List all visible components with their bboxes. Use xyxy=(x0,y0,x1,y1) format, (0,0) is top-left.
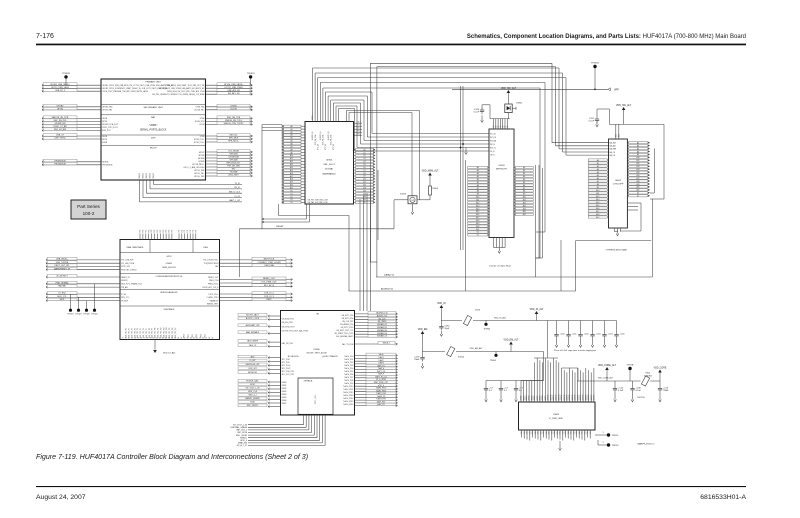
U0901 bottom stubs xyxy=(262,204,310,223)
svg-text:A8: A8 xyxy=(477,190,479,193)
svg-text:92: 92 xyxy=(190,338,192,340)
svg-text:SNC_SN_TCB: SNC_SN_TCB xyxy=(227,117,241,119)
svg-text:RGB5: RGB5 xyxy=(282,397,287,399)
svg-text:A15: A15 xyxy=(636,171,639,174)
svg-text:ADDR(23:0): ADDR(23:0) xyxy=(381,287,393,290)
svg-text:UT0B: UT0B xyxy=(200,118,205,120)
svg-text:TRC3: TRC3 xyxy=(196,334,198,338)
svg-text:SW_AT3_3N: SW_AT3_3N xyxy=(228,92,240,95)
svg-text:POL[2RXP/CRXW]: POL[2RXP/CRXW] xyxy=(204,263,219,265)
svg-text:A17: A17 xyxy=(476,216,479,219)
svg-text:CE: CE xyxy=(363,202,366,204)
power VDD_SW_ALT at U0902 xyxy=(616,104,632,125)
svg-text:GN_PSF_PS72_SUP_DIAL_PS3B: GN_PSF_PS72_SUP_DIAL_PS3B xyxy=(282,329,309,332)
U0902 control pin rows xyxy=(610,142,618,157)
svg-text:EC1B: EC1B xyxy=(200,124,205,126)
svg-text:SUB_TRC_P9: SUB_TRC_P9 xyxy=(152,328,154,338)
svg-text:BASEBAND2: BASEBAND2 xyxy=(323,172,337,175)
svg-text:SDRAM_B2: SDRAM_B2 xyxy=(377,326,387,329)
wire bus U0901 to U1806 xyxy=(360,190,371,311)
svg-text:D1: D1 xyxy=(290,193,292,195)
svg-text:VDDP24: VDDP24 xyxy=(585,394,587,400)
svg-text:A4: A4 xyxy=(523,178,525,181)
svg-text:MCUP: MCUP xyxy=(199,152,205,154)
svg-text:TALKMD: TALKMD xyxy=(58,285,67,288)
power VDD_CORE xyxy=(654,367,667,381)
wire VDD_EM drop xyxy=(543,352,545,381)
svg-text:CPCM/G0B: CPCM/G0B xyxy=(228,157,239,159)
IC U1803 power grid xyxy=(519,402,596,430)
svg-text:A19: A19 xyxy=(596,216,599,219)
svg-text:D3: D3 xyxy=(290,199,292,201)
IC U1806 interface slice xyxy=(281,311,355,416)
svg-text:GN_CLR_PST: GN_CLR_PST xyxy=(342,321,353,323)
svg-text:TRC: TRC xyxy=(140,229,142,233)
svg-text:IPQ: IPQ xyxy=(232,169,236,171)
svg-text:UCT31_PHY3_USB_VT8M_USB_AWT3_E: UCT31_PHY3_USB_VT8M_USB_AWT3_EX_MWT3_EX xyxy=(159,87,205,90)
svg-text:TRC: TRC xyxy=(148,229,150,233)
svg-text:U0903: U0903 xyxy=(498,165,505,167)
svg-text:KEXT_OUT_INT: KEXT_OUT_INT xyxy=(55,265,71,267)
svg-text:VC: VC xyxy=(507,126,509,128)
svg-text:TdbTb_PD7: TdbTb_PD7 xyxy=(344,377,353,379)
svg-text:MARK/RESET_IN: MARK/RESET_IN xyxy=(54,267,71,270)
svg-text:SIM_IO_CLK: SIM_IO_CLK xyxy=(229,192,241,194)
svg-text:OE_N: OE_N xyxy=(490,154,495,156)
svg-text:D2: D2 xyxy=(363,155,365,157)
svg-text:A6: A6 xyxy=(477,184,479,187)
svg-text:D0: D0 xyxy=(290,190,292,192)
svg-text:U1801: U1801 xyxy=(166,263,173,265)
svg-text:VDDP9: VDDP9 xyxy=(545,395,547,400)
svg-text:SDRAM_B1: SDRAM_B1 xyxy=(377,323,387,326)
svg-text:WP_N: WP_N xyxy=(490,144,496,146)
svg-text:GPK0B: GPK0B xyxy=(198,161,205,163)
svg-text:A6: A6 xyxy=(597,177,599,180)
svg-text:VC: VC xyxy=(505,126,507,128)
test point TP0816 xyxy=(591,63,599,90)
svg-text:D8: D8 xyxy=(363,173,365,175)
power VDD_IO_ALT below U1801 xyxy=(153,340,176,355)
svg-text:TAP_OUT_1: TAP_OUT_1 xyxy=(236,429,247,432)
wire DATA return xyxy=(651,199,653,277)
svg-text:A16: A16 xyxy=(596,207,599,210)
svg-text:HAB_SIGNALS: HAB_SIGNALS xyxy=(246,331,260,334)
svg-text:A14: A14 xyxy=(596,201,599,204)
svg-text:VSS: VSS xyxy=(582,431,584,434)
wire bundle left of U0801 xyxy=(42,83,101,166)
svg-text:D12: D12 xyxy=(363,185,366,187)
svg-text:0.1uF: 0.1uF xyxy=(474,112,480,114)
svg-text:WKUPQ: WKUPQ xyxy=(121,280,128,282)
svg-text:JTAG: JTAG xyxy=(203,246,208,249)
svg-text:BA_AxE: BA_AxE xyxy=(610,145,617,148)
resistor E1009 xyxy=(423,346,544,358)
svg-text:NEXTTOLE: NEXTTOLE xyxy=(264,259,275,261)
wire U0902 lower right loop xyxy=(620,203,641,231)
svg-text:USB_AT_3: USB_AT_3 xyxy=(55,89,66,92)
ground near U0903 ctl xyxy=(465,148,468,155)
wire U0903 data verticals xyxy=(536,165,543,277)
svg-text:VDD_IO_ALT: VDD_IO_ALT xyxy=(163,352,176,355)
svg-text:E0901: E0901 xyxy=(517,103,524,105)
svg-text:VDD_IO_ALT: VDD_IO_ALT xyxy=(530,308,544,311)
svg-text:TX_IO: TX_IO xyxy=(235,183,241,185)
svg-text:ADDR21-1:10: ADDR21-1:10 xyxy=(376,312,387,315)
svg-text:DSP: DSP xyxy=(151,138,156,140)
svg-text:D1: D1 xyxy=(637,196,639,198)
svg-text:GN_SYT2_PS7x: GN_SYT2_PS7x xyxy=(341,327,354,329)
svg-text:D11: D11 xyxy=(363,182,366,184)
svg-text:PKTL_2C8: PKTL_2C8 xyxy=(315,395,317,404)
label VG2155 xyxy=(637,397,645,399)
power VDD_EM_ALT arrow xyxy=(504,338,519,351)
svg-text:A19: A19 xyxy=(290,181,293,184)
svg-text:GPC0B: GPC0B xyxy=(198,155,205,157)
svg-text:A15: A15 xyxy=(476,210,479,213)
svg-text:SCK_PA_GTA: SCK_PA_GTA xyxy=(322,134,325,145)
svg-text:JK_DETECT: JK_DETECT xyxy=(56,276,68,278)
svg-text:VDDP25: VDDP25 xyxy=(588,394,590,400)
svg-text:IO_INT: IO_INT xyxy=(249,360,256,362)
svg-text:VDDP6: VDDP6 xyxy=(537,395,539,400)
svg-text:VG23: VG23 xyxy=(475,310,481,312)
svg-text:VSS: VSS xyxy=(557,431,559,434)
svg-text:M4_P84_UDB4/K4T_PM/DB07+T14_SW: M4_P84_UDB4/K4T_PM/DB07+T14_SW7M_JAC4M_T… xyxy=(152,93,204,96)
svg-text:SUB_TRC_P4: SUB_TRC_P4 xyxy=(137,328,139,338)
svg-text:VDDP2: VDDP2 xyxy=(526,395,528,400)
svg-text:A8: A8 xyxy=(523,190,525,193)
label RAM type xyxy=(605,249,626,252)
svg-text:A13: A13 xyxy=(476,204,479,207)
svg-text:VG2155: VG2155 xyxy=(637,397,645,399)
svg-text:A9: A9 xyxy=(523,193,525,196)
svg-text:VDDP12: VDDP12 xyxy=(553,394,555,400)
svg-text:KIT_VOLT_1_IN: KIT_VOLT_1_IN xyxy=(246,388,260,390)
svg-text:VDDP21: VDDP21 xyxy=(577,394,579,400)
svg-text:TMbF: TMbF xyxy=(663,390,669,392)
svg-text:JTG: JTG xyxy=(184,229,186,233)
power VDD_EM xyxy=(418,329,428,352)
svg-text:IC_PWR_GRID: IC_PWR_GRID xyxy=(549,418,563,420)
capacitor C0907 xyxy=(589,109,610,127)
svg-text:RESET_IN: RESET_IN xyxy=(121,277,130,279)
IC U0902 RAM xyxy=(609,139,628,228)
svg-text:SCK_PA_GTA: SCK_PA_GTA xyxy=(329,134,332,145)
svg-text:TP07B: TP07B xyxy=(627,365,634,367)
svg-text:UTC_M: UTC_M xyxy=(325,144,327,150)
svg-text:TRC: TRC xyxy=(145,229,147,233)
svg-text:SNC_AT_BW: SNC_AT_BW xyxy=(54,128,66,131)
svg-text:TRC: TRC xyxy=(151,229,153,233)
resistor R0910 xyxy=(429,181,438,200)
svg-text:A5: A5 xyxy=(523,181,525,184)
svg-text:JTG: JTG xyxy=(181,229,183,233)
svg-text:SUB_TRC_P0: SUB_TRC_P0 xyxy=(126,328,128,338)
svg-text:A0: A0 xyxy=(523,166,525,169)
svg-text:DPAD_IN2: DPAD_IN2 xyxy=(238,442,247,445)
wire bundle left of U1801 xyxy=(46,257,120,301)
resistor E301 xyxy=(641,373,660,387)
svg-text:BU2: BU2 xyxy=(615,134,617,137)
wire harness U0901 top pins xyxy=(312,63,608,277)
svg-text:UFOB2_PA1: UFOB2_PA1 xyxy=(102,106,112,109)
svg-text:A8: A8 xyxy=(290,148,292,151)
svg-text:VDDP5: VDDP5 xyxy=(534,395,536,400)
svg-text:UBT_BC: UBT_BC xyxy=(230,135,238,137)
svg-text:RESET_OUT: RESET_OUT xyxy=(263,278,276,280)
svg-text:USB_AT3_3N: USB_AT3_3N xyxy=(227,89,240,92)
svg-text:A9: A9 xyxy=(290,151,292,154)
svg-text:TP0940: TP0940 xyxy=(483,329,490,331)
svg-text:H: H xyxy=(412,198,414,202)
svg-text:UT12H_PHY3_USB_VBMT_JT43_TM4_U: UT12H_PHY3_USB_VBMT_JT43_TM4_UVT_TM xyxy=(164,85,204,87)
svg-text:TRC5: TRC5 xyxy=(205,334,207,338)
svg-text:UPC0L_PB+: UPC0L_PB+ xyxy=(194,173,204,175)
svg-text:+C54: +C54 xyxy=(608,334,614,336)
svg-text:BA_ALE: BA_ALE xyxy=(610,142,617,145)
svg-text:Figure 7-119. HUF4017A Control: Figure 7-119. HUF4017A Controller Block … xyxy=(36,453,308,461)
svg-text:EPUMxSOB: EPUMxSOB xyxy=(54,160,66,162)
svg-text:VSS: VSS xyxy=(524,431,526,434)
svg-text:VDDP7: VDDP7 xyxy=(540,395,542,400)
svg-text:A19: A19 xyxy=(636,183,639,186)
svg-text:SECONDARY UNIT: SECONDARY UNIT xyxy=(143,106,163,109)
svg-text:SIM_IO: SIM_IO xyxy=(153,172,155,178)
svg-text:UVT32_PB2: UVT32_PB2 xyxy=(102,110,112,112)
svg-text:TRC: TRC xyxy=(163,229,165,233)
svg-text:D9: D9 xyxy=(363,176,365,178)
svg-text:VDDP15: VDDP15 xyxy=(561,394,563,400)
svg-text:D1: D1 xyxy=(477,235,479,237)
svg-text:D4: D4 xyxy=(363,161,365,163)
svg-text:SUB_TRC_P6: SUB_TRC_P6 xyxy=(143,328,145,338)
svg-text:MOP: MOP xyxy=(60,299,65,301)
svg-text:7-176: 7-176 xyxy=(36,33,54,40)
svg-text:SYS_IO_2: SYS_IO_2 xyxy=(264,293,274,295)
svg-text:VSS: VSS xyxy=(584,431,586,434)
svg-text:VDD_EM_ALT: VDD_EM_ALT xyxy=(504,338,519,341)
svg-text:D14: D14 xyxy=(363,190,366,192)
svg-text:pdbP_P0: pdbP_P0 xyxy=(377,404,384,406)
svg-text:6816533H01-A: 6816533H01-A xyxy=(700,494,746,501)
svg-text:RESET: RESET xyxy=(276,226,284,228)
pin ladder right of U0902 xyxy=(627,141,650,197)
svg-text:SUB_TRC_P1: SUB_TRC_P1 xyxy=(129,328,131,338)
svg-text:BADWL_SENSE: BADWL_SENSE xyxy=(245,397,260,400)
svg-text:MTL_PGT_GT8: MTL_PGT_GT8 xyxy=(282,374,294,376)
svg-text:KEYPAD-A: KEYPAD-A xyxy=(304,379,313,382)
svg-text:PWRL_PCH: PWRL_PCH xyxy=(209,280,219,282)
svg-text:99: 99 xyxy=(212,338,214,340)
svg-text:SUB_TRC_P8: SUB_TRC_P8 xyxy=(149,328,151,338)
svg-text:+C52: +C52 xyxy=(584,334,590,336)
svg-text:A16: A16 xyxy=(476,213,479,216)
part series box xyxy=(71,200,106,219)
svg-text:SNKCH_SN_TCLF: SNKCH_SN_TCLF xyxy=(225,120,243,122)
svg-text:UFT32: UFT32 xyxy=(57,108,64,110)
svg-text:VDD_SW_ALT: VDD_SW_ALT xyxy=(616,104,632,107)
label flash type xyxy=(489,266,511,268)
svg-text:IO_O2: IO_O2 xyxy=(234,196,240,198)
svg-text:TP0816: TP0816 xyxy=(591,63,599,65)
pin ladder left of U0901 xyxy=(282,125,305,204)
svg-text:RESET_OUT: RESET_OUT xyxy=(208,277,218,279)
svg-text:SUB_TRC_P12: SUB_TRC_P12 xyxy=(160,327,162,338)
IC U1801 SMG block xyxy=(120,240,220,340)
svg-text:TMbF: TMbF xyxy=(414,359,420,361)
svg-text:A5: A5 xyxy=(597,174,599,177)
page header left xyxy=(36,33,54,40)
IC U0901 digital baseband xyxy=(305,122,354,205)
svg-text:TdbTb_PD2: TdbTb_PD2 xyxy=(344,362,353,364)
svg-text:REAL TIME/TRACE: REAL TIME/TRACE xyxy=(127,246,145,249)
svg-text:D5: D5 xyxy=(363,164,365,166)
svg-text:A7: A7 xyxy=(523,187,525,190)
svg-text:A5: A5 xyxy=(290,140,292,143)
svg-text:A13: A13 xyxy=(596,198,599,201)
test point TP0952 xyxy=(598,440,619,447)
svg-text:VDD_EM: VDD_EM xyxy=(418,329,428,331)
U1801 top pins xyxy=(140,229,198,240)
power VDD_IO xyxy=(437,303,446,321)
svg-text:A16: A16 xyxy=(636,174,639,177)
svg-text:PAT_2/O26: PAT_2/O26 xyxy=(237,431,247,434)
svg-text:D6: D6 xyxy=(363,167,365,169)
svg-text:TdbTb_PD12: TdbTb_PD12 xyxy=(343,392,353,394)
svg-text:CYPRESS 4Mx16 RAM: CYPRESS 4Mx16 RAM xyxy=(605,249,626,252)
svg-text:UTOP_PD7a: UTOP_PD7a xyxy=(208,294,218,296)
svg-text:PA2: PA2 xyxy=(215,265,218,268)
svg-text:PROMxSOB: PROMxSOB xyxy=(102,165,113,167)
svg-text:SIM/TELDE_INT: SIM/TELDE_INT xyxy=(245,364,260,366)
svg-text:VSS: VSS xyxy=(562,431,564,434)
svg-text:VSS: VSS xyxy=(560,431,562,434)
svg-text:VSS: VSS xyxy=(543,431,545,434)
decoupling capacitors row xyxy=(554,321,625,348)
svg-text:MTL_PG9: MTL_PG9 xyxy=(282,362,290,364)
svg-text:0.1: 0.1 xyxy=(504,390,508,392)
svg-text:A10: A10 xyxy=(290,154,293,157)
svg-text:SUB_TRC_P3: SUB_TRC_P3 xyxy=(134,328,136,338)
svg-text:DSP_TXRQ: DSP_TXRQ xyxy=(55,138,66,140)
svg-text:TP0819: TP0819 xyxy=(247,73,255,75)
svg-text:SYNC_PCF_DO73: SYNC_PCF_DO73 xyxy=(102,127,117,129)
svg-text:TRC: TRC xyxy=(172,229,174,233)
svg-text:TRC2: TRC2 xyxy=(192,334,194,338)
svg-text:A14: A14 xyxy=(476,207,479,210)
svg-text:VDDP17: VDDP17 xyxy=(567,394,569,400)
svg-text:TRC: TRC xyxy=(154,229,156,233)
svg-text:D7: D7 xyxy=(363,170,365,172)
svg-text:VDDP20: VDDP20 xyxy=(575,394,577,400)
svg-text:VDD_IO: VDD_IO xyxy=(437,303,446,305)
svg-text:VSS: VSS xyxy=(549,431,551,434)
svg-text:MxSOB: MxSOB xyxy=(102,162,109,164)
svg-text:TRC: TRC xyxy=(169,229,171,233)
svg-text:GPL0/4B: GPL0/4B xyxy=(229,154,238,156)
svg-text:A1: A1 xyxy=(477,169,479,172)
svg-text:INT_BA: INT_BA xyxy=(490,139,497,142)
svg-text:TdbTb_PD14: TdbTb_PD14 xyxy=(343,398,353,400)
svg-text:mxd die x 16 Sync Flash: mxd die x 16 Sync Flash xyxy=(489,266,511,268)
svg-text:A18: A18 xyxy=(476,219,479,222)
U0901 upper right rows xyxy=(354,122,363,136)
svg-text:GN_PA2_SUP_PA2_COM: GN_PA2_SUP_PA2_COM xyxy=(308,201,328,204)
svg-text:SERIAL_PORTS_BLOCK: SERIAL_PORTS_BLOCK xyxy=(140,129,167,132)
test points TP0101 TP0107 TP0108 TP0102 xyxy=(67,284,97,316)
wire bundle right of U0801 xyxy=(206,83,253,178)
svg-text:PRIMARY UNIT: PRIMARY UNIT xyxy=(145,81,161,84)
svg-text:GN_SVT1_PSx: GN_SVT1_PSx xyxy=(342,315,354,317)
svg-text:A11: A11 xyxy=(290,157,293,160)
svg-text:GNT0: GNT0 xyxy=(312,116,314,120)
svg-text:MTL_PG72: MTL_PG72 xyxy=(282,368,291,370)
svg-text:TRC: TRC xyxy=(157,229,159,233)
figure caption xyxy=(36,453,308,461)
svg-text:UFOB: UFOB xyxy=(102,136,108,138)
svg-text:89: 89 xyxy=(181,338,183,340)
svg-text:GN_BUS0_PS2: GN_BUS0_PS2 xyxy=(282,318,294,320)
svg-text:A15: A15 xyxy=(290,169,293,172)
svg-text:IN_CLK: IN_CLK xyxy=(490,133,497,135)
svg-text:CUR_JKT: CUR_JKT xyxy=(248,368,257,370)
svg-text:A21: A21 xyxy=(476,228,479,231)
svg-text:A11: A11 xyxy=(523,199,526,202)
rail VDD_CORE_ALT xyxy=(577,377,641,381)
svg-text:MCK_CTL: MCK_CTL xyxy=(57,296,67,298)
svg-text:MCK0B: MCK0B xyxy=(198,158,205,160)
svg-text:TdbTb_PD9: TdbTb_PD9 xyxy=(344,383,353,385)
svg-text:88: 88 xyxy=(177,338,179,340)
svg-text:USB_VBUS+: USB_VBUS+ xyxy=(56,259,69,261)
svg-text:GN_FS0_PS8: GN_FS0_PS8 xyxy=(282,322,293,324)
svg-text:A3: A3 xyxy=(477,175,479,178)
svg-text:UFT12_USB_VBS3: UFT12_USB_VBS3 xyxy=(51,87,69,89)
U0903 control pin rows xyxy=(490,133,497,156)
svg-text:A5: A5 xyxy=(637,141,639,144)
svg-text:UT084: UT084 xyxy=(230,105,237,107)
svg-text:A6: A6 xyxy=(290,143,292,146)
svg-text:D0: D0 xyxy=(477,232,479,234)
svg-text:+C51: +C51 xyxy=(572,334,578,336)
svg-text:A7 GROUPS+: A7 GROUPS+ xyxy=(288,355,300,358)
svg-text:VDD_EM_ALT: VDD_EM_ALT xyxy=(470,347,484,350)
svg-text:UTC_M: UTC_M xyxy=(333,144,335,150)
test point TP0819 xyxy=(247,73,255,85)
svg-text:USB_PHA: USB_PHA xyxy=(264,264,274,267)
svg-text:INT_UD: INT_UD xyxy=(490,137,497,139)
svg-text:SUB_TRC_P7: SUB_TRC_P7 xyxy=(146,328,148,338)
svg-text:VC: VC xyxy=(502,126,504,128)
svg-text:VDDP19: VDDP19 xyxy=(572,394,574,400)
svg-text:TP0952: TP0952 xyxy=(612,445,620,447)
svg-text:SNKCH_CTA_TCPN2: SNKCH_CTA_TCPN2 xyxy=(224,122,245,125)
svg-text:KEYB: KEYB xyxy=(102,139,108,141)
svg-text:+C53: +C53 xyxy=(596,334,602,336)
svg-text:TRC1: TRC1 xyxy=(188,334,190,338)
svg-text:UART_1_GP: UART_1_GP xyxy=(229,199,241,202)
svg-text:SVB4_MO4_I24_T41P_AT4_JT4H_AT4: SVB4_MO4_I24_T41P_AT4_JT4H_AT4_JT4H xyxy=(167,90,205,93)
svg-text:A15: A15 xyxy=(523,210,526,213)
svg-text:TP0951: TP0951 xyxy=(612,435,620,437)
U1806 inner pin labels xyxy=(282,315,354,406)
LED box E0901 xyxy=(505,103,523,113)
svg-text:TdbTb_PD15: TdbTb_PD15 xyxy=(343,401,353,403)
svg-text:UT12H_USB_VBUS+: UT12H_USB_VBUS+ xyxy=(224,84,244,86)
svg-text:TdbTb_PD16: TdbTb_PD16 xyxy=(343,404,353,406)
svg-text:SUB_TRC_P15: SUB_TRC_P15 xyxy=(169,327,171,338)
